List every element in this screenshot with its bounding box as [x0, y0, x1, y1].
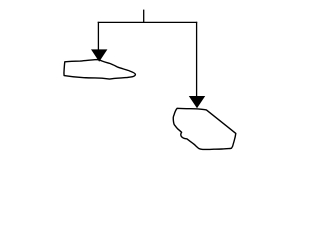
top tick: [143, 10, 145, 23]
left blob: [64, 60, 135, 80]
right blob: [173, 108, 236, 149]
horizontal connector bar: [98, 21, 198, 23]
left drop wire: [97, 22, 99, 50]
left arrowhead: [91, 49, 107, 61]
right drop wire: [196, 22, 198, 97]
right arrowhead: [189, 96, 205, 108]
